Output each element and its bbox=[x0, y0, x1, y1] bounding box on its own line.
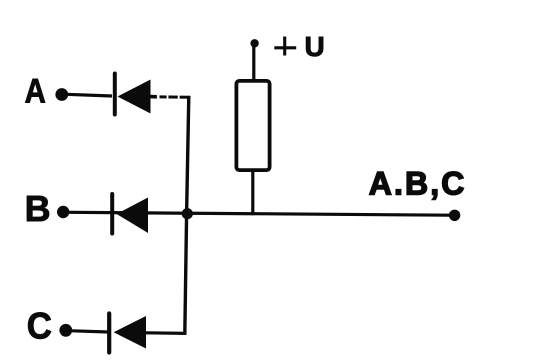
svg-text:A.B,C: A.B,C bbox=[369, 166, 467, 202]
svg-text:U: U bbox=[305, 31, 325, 62]
svg-text:C: C bbox=[27, 306, 52, 347]
svg-text:A: A bbox=[25, 73, 46, 111]
svg-text:B: B bbox=[25, 188, 51, 229]
